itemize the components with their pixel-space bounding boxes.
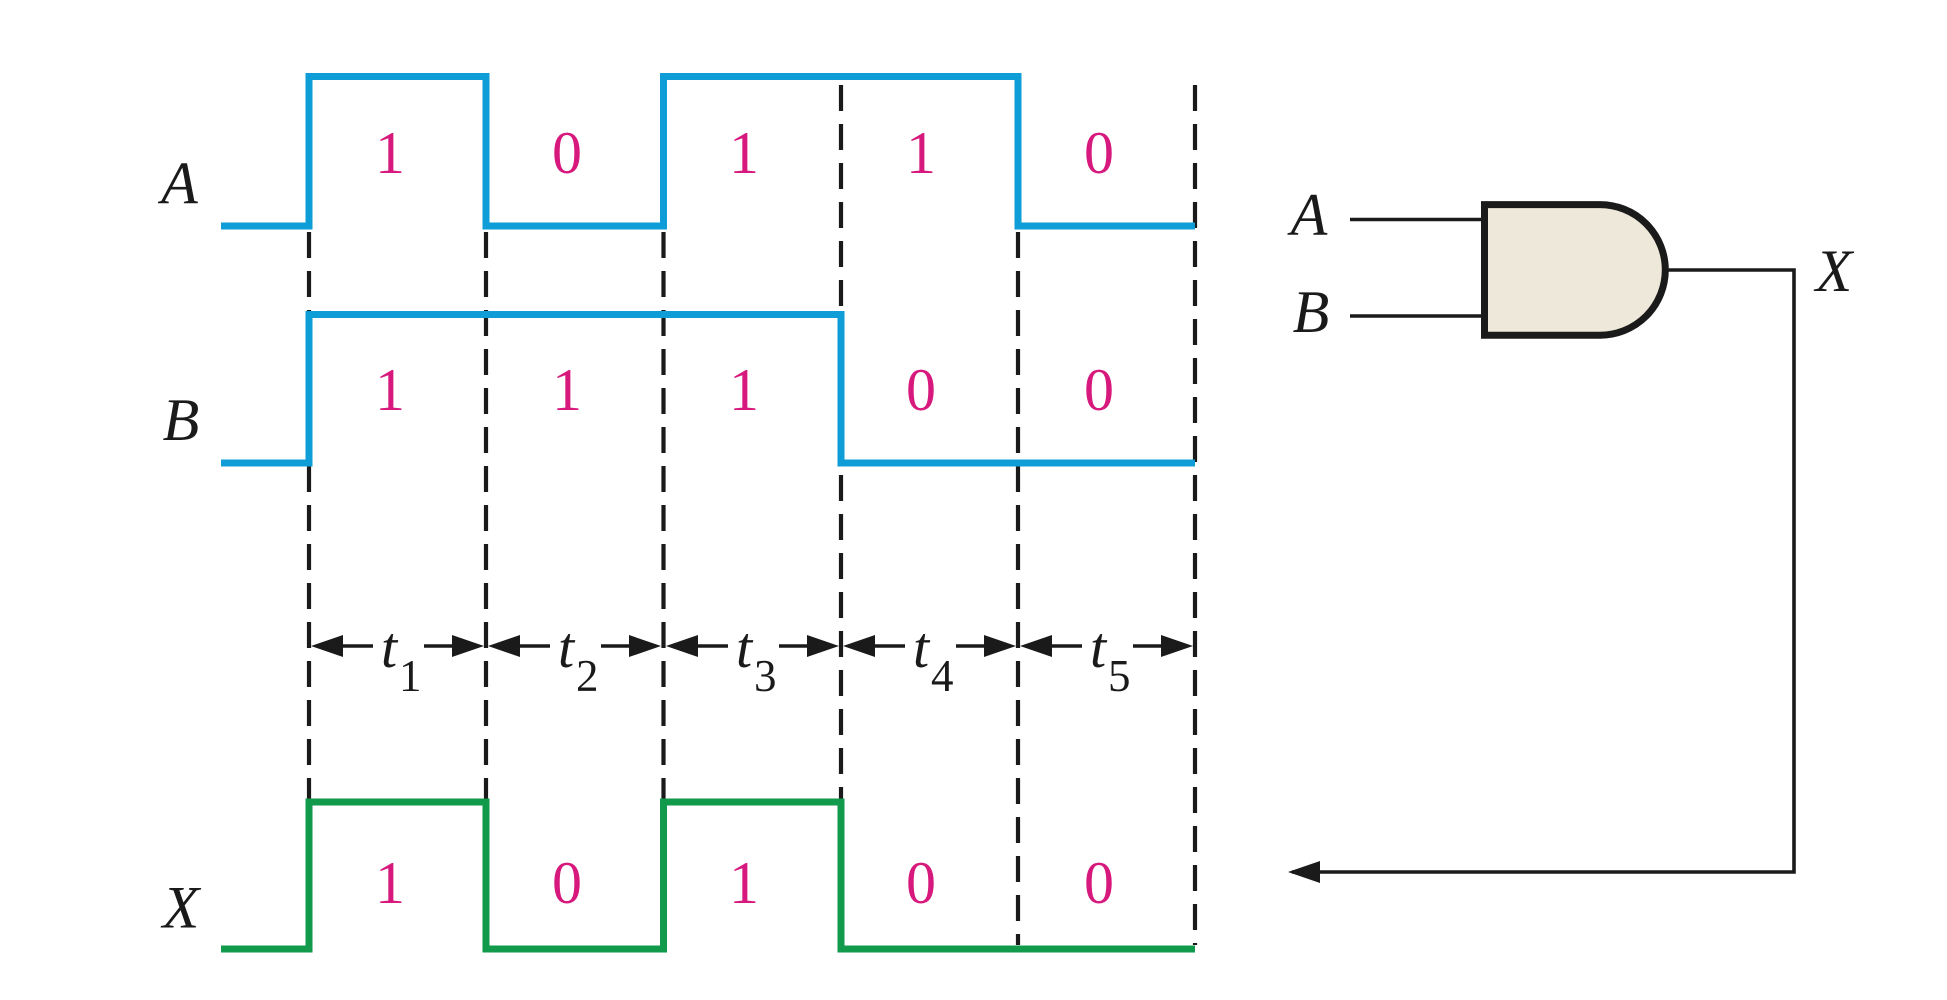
- svg-text:t: t: [381, 615, 399, 680]
- svg-text:X: X: [1814, 238, 1855, 304]
- interval t5 arrow lines: [1047, 644, 1167, 648]
- node t2/t3 boundary dashed line: [661, 232, 665, 945]
- svg-text:1: 1: [729, 850, 759, 916]
- interval t4 left arrowhead: [843, 635, 875, 657]
- svg-text:0: 0: [552, 120, 582, 186]
- svg-text:A: A: [157, 151, 198, 217]
- svg-text:A: A: [1287, 182, 1328, 248]
- node t1/t2 boundary dashed line: [484, 232, 488, 945]
- interval t2 arrow lines: [515, 644, 635, 648]
- interval t1 arrow lines: [338, 644, 458, 648]
- wire gate output feedback to waveform X: [1292, 270, 1794, 872]
- svg-text:B: B: [1293, 279, 1330, 345]
- wire gate input A: [1350, 218, 1484, 222]
- svg-text:0: 0: [906, 357, 936, 423]
- svg-text:X: X: [161, 875, 202, 941]
- interval t4 arrow lines: [870, 644, 990, 648]
- svg-text:t: t: [913, 615, 931, 680]
- and-gate U1 body: [1485, 205, 1666, 336]
- node t1 start dashed line: [307, 232, 311, 945]
- svg-text:1: 1: [399, 651, 422, 701]
- svg-text:0: 0: [1084, 357, 1114, 423]
- svg-text:1: 1: [375, 120, 405, 186]
- interval t5 left arrowhead: [1020, 635, 1052, 657]
- svg-text:5: 5: [1108, 651, 1131, 701]
- interval t3 right arrowhead: [807, 635, 839, 657]
- waveform B trace: [221, 315, 1195, 464]
- svg-text:0: 0: [906, 850, 936, 916]
- svg-text:1: 1: [375, 850, 405, 916]
- svg-text:t: t: [558, 615, 576, 680]
- node t5 end dashed line: [1193, 85, 1197, 945]
- svg-text:1: 1: [729, 357, 759, 423]
- svg-text:1: 1: [552, 357, 582, 423]
- interval t4 right arrowhead: [984, 635, 1016, 657]
- interval t2 right arrowhead: [629, 635, 661, 657]
- arrowhead feedback wire: [1288, 861, 1320, 883]
- svg-text:2: 2: [576, 651, 599, 701]
- interval t1 right arrowhead: [452, 635, 484, 657]
- interval t1 left arrowhead: [311, 635, 343, 657]
- svg-text:3: 3: [754, 651, 777, 701]
- svg-text:1: 1: [729, 120, 759, 186]
- svg-text:4: 4: [931, 651, 954, 701]
- svg-text:0: 0: [552, 850, 582, 916]
- waveform X trace: [221, 802, 1195, 949]
- svg-text:0: 0: [1084, 850, 1114, 916]
- interval t3 arrow lines: [693, 644, 813, 648]
- svg-text:1: 1: [906, 120, 936, 186]
- waveform A trace: [221, 77, 1195, 227]
- node t3/t4 boundary dashed line: [839, 85, 843, 945]
- svg-text:t: t: [1090, 615, 1108, 680]
- svg-text:t: t: [736, 615, 754, 680]
- svg-text:1: 1: [375, 357, 405, 423]
- wire gate input B: [1350, 314, 1484, 318]
- interval t3 left arrowhead: [666, 635, 698, 657]
- node t4/t5 boundary dashed line: [1016, 232, 1020, 945]
- interval t2 left arrowhead: [488, 635, 520, 657]
- interval t5 right arrowhead: [1161, 635, 1193, 657]
- svg-text:B: B: [163, 387, 200, 453]
- svg-text:0: 0: [1084, 120, 1114, 186]
